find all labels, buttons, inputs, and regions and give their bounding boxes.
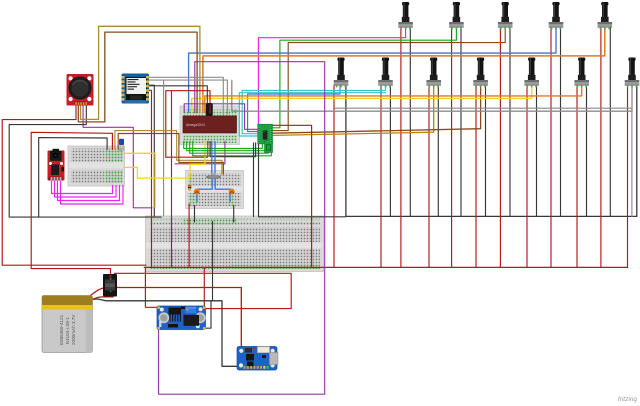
wire: red riser pot R1 <box>400 27 402 267</box>
wire: gold sensor bb jumper to mid bb <box>115 131 222 174</box>
wire: orange signal pot R11 row2 to MCU <box>205 85 582 113</box>
sensor board U4 (red breakout with jack) <box>48 149 65 181</box>
wire: black drop pot R1 top row <box>409 27 411 216</box>
svg-text:E4104-LS8-1: E4104-LS8-1 <box>65 316 70 344</box>
wire: magenta sensor lead 4 <box>61 181 124 205</box>
wire: tan signal pot R8 row2 to mux <box>273 85 434 135</box>
wire: red battery to charger <box>86 288 241 350</box>
wire: red riser pot R11 row2 <box>576 85 578 267</box>
wire: gray OLED SCL to MCU <box>148 77 223 114</box>
potentiometer R12 <box>625 58 640 88</box>
multiplexer U3 (green breakout) <box>258 124 273 152</box>
wire: black ground bus to potentiometers <box>346 85 637 216</box>
breadboard BB2 (left half-size, under sensor) <box>68 146 125 186</box>
potentiometer R6 <box>334 58 349 88</box>
wire: red switch feed lower rail <box>115 273 292 308</box>
wire: black drop pot R9 row2 <box>485 85 487 216</box>
capacitor C4 (orange disc right) <box>229 189 235 195</box>
wire: black mid bb to big bb B <box>233 206 235 223</box>
potentiometer R4 <box>549 2 564 29</box>
wire: red riser pot R10 row2 <box>526 85 528 267</box>
wire: red vertical filler <box>171 91 173 267</box>
capacitor C1 (dark, on MCU breadboard) <box>206 103 213 117</box>
wire: purple stub MCU to mid area <box>175 142 225 164</box>
wire: green mux S1 <box>187 142 266 151</box>
wire: red mid bb down to V+ bus <box>188 204 190 267</box>
potentiometer R9 <box>473 58 488 88</box>
svg-text:2000mAh 3.7V: 2000mAh 3.7V <box>71 314 76 345</box>
wire: black drop pot R8 row2 <box>437 85 439 216</box>
wire: red battery stub to switch <box>92 297 113 300</box>
wire: gray OLED SDA to MCU <box>148 80 227 114</box>
wire: black mid bb to big bb A <box>194 206 196 223</box>
wire: yellow signal pot R10 row2 to MCU <box>192 85 532 113</box>
wire: gold joystick axis to MCU over top <box>81 26 200 119</box>
wire: green mux S0 <box>184 142 263 149</box>
wire: black drop pot R5 top row <box>609 27 611 216</box>
wire: yellow sensor bb to lower area <box>123 153 156 207</box>
wire: red riser pot R12 row2 <box>627 85 629 267</box>
wire: blue jumper right on mid bb <box>215 179 230 202</box>
wire: orange signal pot R5 to MCU <box>203 27 605 113</box>
svg-text:Atmega32U4: Atmega32U4 <box>186 123 205 127</box>
potentiometer R7 <box>378 58 393 88</box>
wire: black drop pot R3 top row <box>509 27 511 216</box>
svg-text:E585460-4121: E585460-4121 <box>59 314 64 345</box>
wire: black drop pot R11 row2 <box>586 85 588 216</box>
wire: black drop pot R7 row2 <box>389 85 391 216</box>
trimmer VR (gray slide on mid breadboard) <box>206 173 221 179</box>
wire: red riser pot R7 row2 <box>380 85 382 267</box>
OLED display U2 (Wemos D1 mini shield) <box>122 74 150 104</box>
wire: gray signal pot R12 row2 to MCU <box>232 80 632 111</box>
wire: red mux VCC down to V+ bus <box>273 125 312 267</box>
wire: blue signal pot R6 row2 to mux <box>248 85 340 132</box>
DC-DC converter U5 (LM2596 buck, blue) <box>157 306 206 330</box>
wire: red riser pot R3 <box>499 27 501 267</box>
wire: black battery to charger gnd <box>88 299 238 366</box>
joystick module J1 <box>67 74 94 106</box>
wire: red V+ bus under breadboard <box>144 266 627 268</box>
wire: black mux EN drop to breadboard <box>253 143 255 217</box>
switch S1 (slide switch) <box>103 274 117 297</box>
wire: red rail to DC-DC input <box>145 267 157 307</box>
wire: magenta sensor lead 1 <box>52 181 113 194</box>
potentiometer R3 <box>498 2 513 29</box>
wire: brown sensor bb jumper to mid bb <box>118 134 223 175</box>
wire: red feed to capacitor and MCU <box>166 91 210 158</box>
wire: green signal pot R2 to mux <box>273 27 457 128</box>
wire: black drop pot R2 top row <box>460 27 462 216</box>
wire: brown joystick axis to MCU over top <box>78 32 197 122</box>
wire: gray long drop to ground line <box>163 80 165 216</box>
potentiometer R8 <box>426 58 441 88</box>
wire: black joystick GND long loop <box>9 105 161 217</box>
wire: black drop pot R4 top row <box>560 27 562 216</box>
wire: purple joystick signal <box>83 105 152 208</box>
wire: green mux S3 <box>193 142 272 156</box>
wire: yellow jumper into mid bb <box>124 167 189 178</box>
wire: blue MCU to slide pot A <box>211 142 213 177</box>
breadboard BB1 (large full-size, center) <box>146 216 324 272</box>
wire: black mux GND to MCU <box>210 142 256 157</box>
wire: purple battery-sense loop MCU to DC-DC <box>159 62 325 395</box>
wire: magenta sensor lead 3 <box>58 181 120 201</box>
wire: red riser pot R4 <box>550 27 552 267</box>
wire: green mux S2 <box>190 142 269 154</box>
wire: red from cap rail into MCU bottom <box>166 142 208 158</box>
wire: brown signal pot R3 to mux <box>273 27 506 131</box>
potentiometer R10 <box>524 58 539 88</box>
wire: black OLED GND drop <box>148 85 154 216</box>
wire: blue jumper left on mid bb <box>197 179 212 202</box>
capacitor C2 (blue, on left breadboard) <box>119 139 124 151</box>
resistor R13 (small, mid bb left edge) <box>188 184 191 191</box>
battery BT1 (LiPo 2000mAh) <box>42 296 93 353</box>
wire: brown signal pot R9 row2 to mux <box>273 85 481 133</box>
wire: blue MCU to slide pot B <box>214 142 216 177</box>
microcontroller U1 (ATmega32U4 board on breadboard) <box>183 116 237 133</box>
charger board U6 (LiPo charger, blue) <box>237 347 278 371</box>
potentiometer R2 <box>449 2 464 29</box>
svg-text:fritzing: fritzing <box>618 396 638 403</box>
wire: blue signal pot R4 to MCU <box>189 27 556 113</box>
breadboard BB4 (under microcontroller) <box>180 106 240 145</box>
wire: black DC-DC out gnd <box>205 301 211 328</box>
wire: cyan second signal wire to mux <box>239 93 385 136</box>
wire: red joystick VCC long loop <box>2 105 146 265</box>
wire: red OLED supply chain to breadboard <box>148 90 152 267</box>
wire: red riser pot R9 row2 <box>475 85 477 267</box>
wire: red left loop via sensor bb <box>31 132 112 293</box>
wire: black left loop to bus <box>39 138 107 218</box>
wire: red DC-DC output up to V+ bus <box>203 267 205 306</box>
wire: red riser pot R5 <box>600 27 602 267</box>
wire: black mux GND drop and rail <box>259 143 346 217</box>
wire: magenta sensor lead 2 <box>55 181 117 198</box>
wire: black drop pot R10 row2 <box>536 85 538 216</box>
wire: red riser pot R6 row2 <box>333 85 335 267</box>
wire: purple mux SIG to MCU ADC <box>184 104 258 130</box>
wire: black breadboard GND down <box>212 222 214 301</box>
potentiometer R11 <box>574 58 589 88</box>
wire: black OLED GND to capacitor <box>148 86 207 104</box>
wire: magenta signal pot R1 to mux <box>258 27 405 125</box>
potentiometer R1 <box>398 2 413 29</box>
wire: gray vertical pot R12 to ground bus <box>335 108 632 216</box>
wire: cyan signal pot R7 row2 to mux <box>242 85 385 134</box>
wire: yellow MCU to mid bb <box>190 142 205 178</box>
wire: red riser pot R8 row2 <box>428 85 430 267</box>
breadboard BB3 (middle small, with caps) <box>186 171 244 209</box>
potentiometer R5 <box>598 2 613 29</box>
wire: red riser pot R2 <box>451 27 453 267</box>
capacitor C3 (orange disc left) <box>194 189 200 195</box>
